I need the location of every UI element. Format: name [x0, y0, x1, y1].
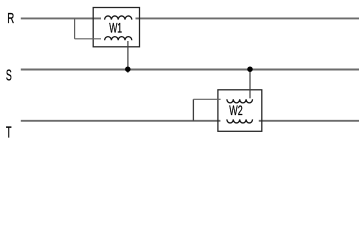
W2 secondary coil (bottom, humps down) — [227, 119, 253, 123]
wire: W2 left jumper vertical (primary to T) — [192, 99, 194, 121]
transformer W2 box — [218, 90, 262, 132]
svg-text:R: R — [7, 10, 14, 27]
wire: R line right segment — [136, 17, 360, 19]
svg-text:T: T — [6, 125, 12, 142]
wire: W1 left jumper vertical (R to secondary) — [74, 18, 76, 38]
W2 primary coil (top, humps down) — [227, 99, 253, 103]
wire: T line right segment — [259, 120, 359, 122]
wire: W1 secondary to S line — [127, 41, 129, 73]
wire: T line left segment — [21, 120, 221, 122]
wire: S line — [21, 69, 359, 71]
transformer W1 box — [93, 8, 139, 47]
wire: W2 primary from S junction down — [249, 70, 251, 99]
wire: W1 secondary left stub — [75, 38, 101, 40]
svg-text:W1: W1 — [109, 21, 122, 36]
wire: W2 primary left stub — [193, 98, 220, 100]
svg-text:S: S — [6, 68, 12, 85]
wire: R line left segment — [21, 17, 101, 19]
W1 primary coil (top, humps up) — [105, 16, 132, 20]
W1 secondary coil (bottom, humps up) — [105, 37, 132, 41]
junction node on S (W2) — [247, 66, 253, 72]
junction node on S (W1) — [125, 66, 131, 72]
svg-text:W2: W2 — [229, 103, 242, 118]
